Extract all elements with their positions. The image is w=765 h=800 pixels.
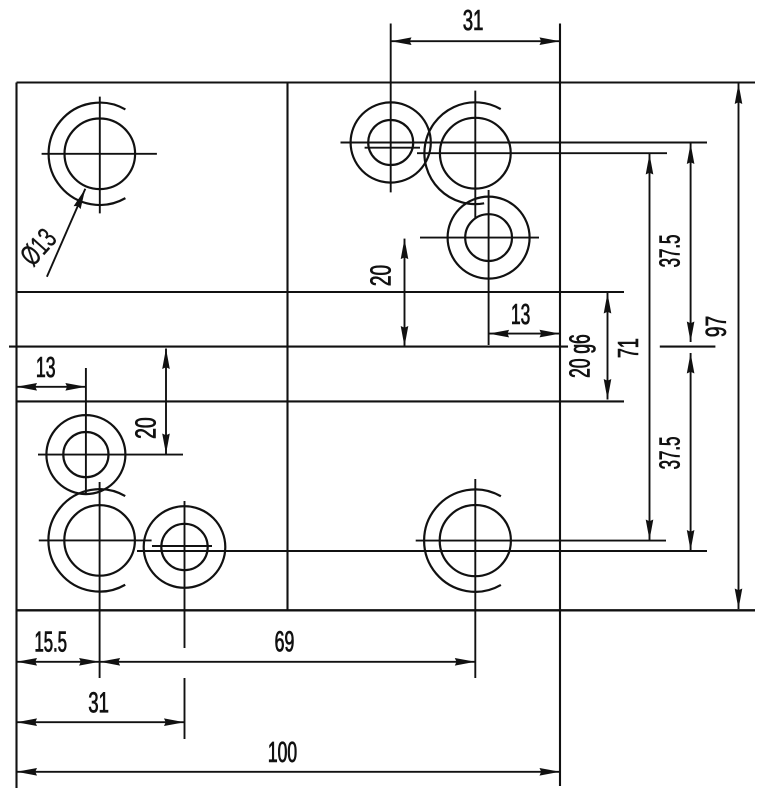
- dimension 20 g6: [607, 293, 609, 400]
- hole E bottom-left bore Ø13: [64, 505, 135, 576]
- dimension 69: [100, 661, 476, 663]
- plate right edge with extensions: [559, 24, 561, 787]
- plate top edge: [17, 81, 756, 83]
- dimension 100: [17, 771, 561, 773]
- vertical center line: [286, 83, 288, 611]
- slot bottom line: [17, 400, 625, 402]
- slot top line: [17, 291, 625, 293]
- dimension 31 top: [391, 40, 560, 42]
- dimension 20 right: [404, 239, 406, 347]
- dimension 37.5 top: [690, 144, 692, 343]
- leader Ø13: [47, 189, 85, 277]
- slot center line: [9, 346, 568, 348]
- dimension 13 left: [17, 386, 86, 388]
- hole H1 center lines: [42, 153, 157, 155]
- dimension 31 bottom: [17, 721, 185, 723]
- plate bottom edge: [17, 609, 756, 611]
- hole G center lines: [416, 540, 666, 542]
- dimension 15.5: [17, 661, 100, 663]
- dimension 37.5 bottom: [690, 353, 692, 551]
- dimension 13 top-right: [489, 333, 560, 335]
- dimension 97: [738, 84, 740, 610]
- hole H1 top-left bore Ø13: [65, 119, 136, 190]
- hole C right small: [465, 214, 512, 261]
- hole D left small: [63, 432, 108, 477]
- dimension 20 left: [165, 349, 167, 455]
- hole A top small: [368, 120, 413, 165]
- hole F center lines: [152, 545, 212, 547]
- hole B top-right bore Ø13: [440, 118, 511, 189]
- hole B center lines: [417, 152, 667, 154]
- hole A center lines: [341, 142, 708, 144]
- hole F bottom small: [161, 524, 207, 570]
- dimension 71: [649, 154, 651, 540]
- hole G bottom-right bore Ø13: [440, 505, 511, 576]
- hole E center lines: [39, 539, 152, 541]
- hole C center lines: [420, 237, 539, 239]
- slot center line right tick: [660, 346, 716, 348]
- hole D center lines: [38, 454, 183, 456]
- plate left edge with extension: [15, 83, 17, 789]
